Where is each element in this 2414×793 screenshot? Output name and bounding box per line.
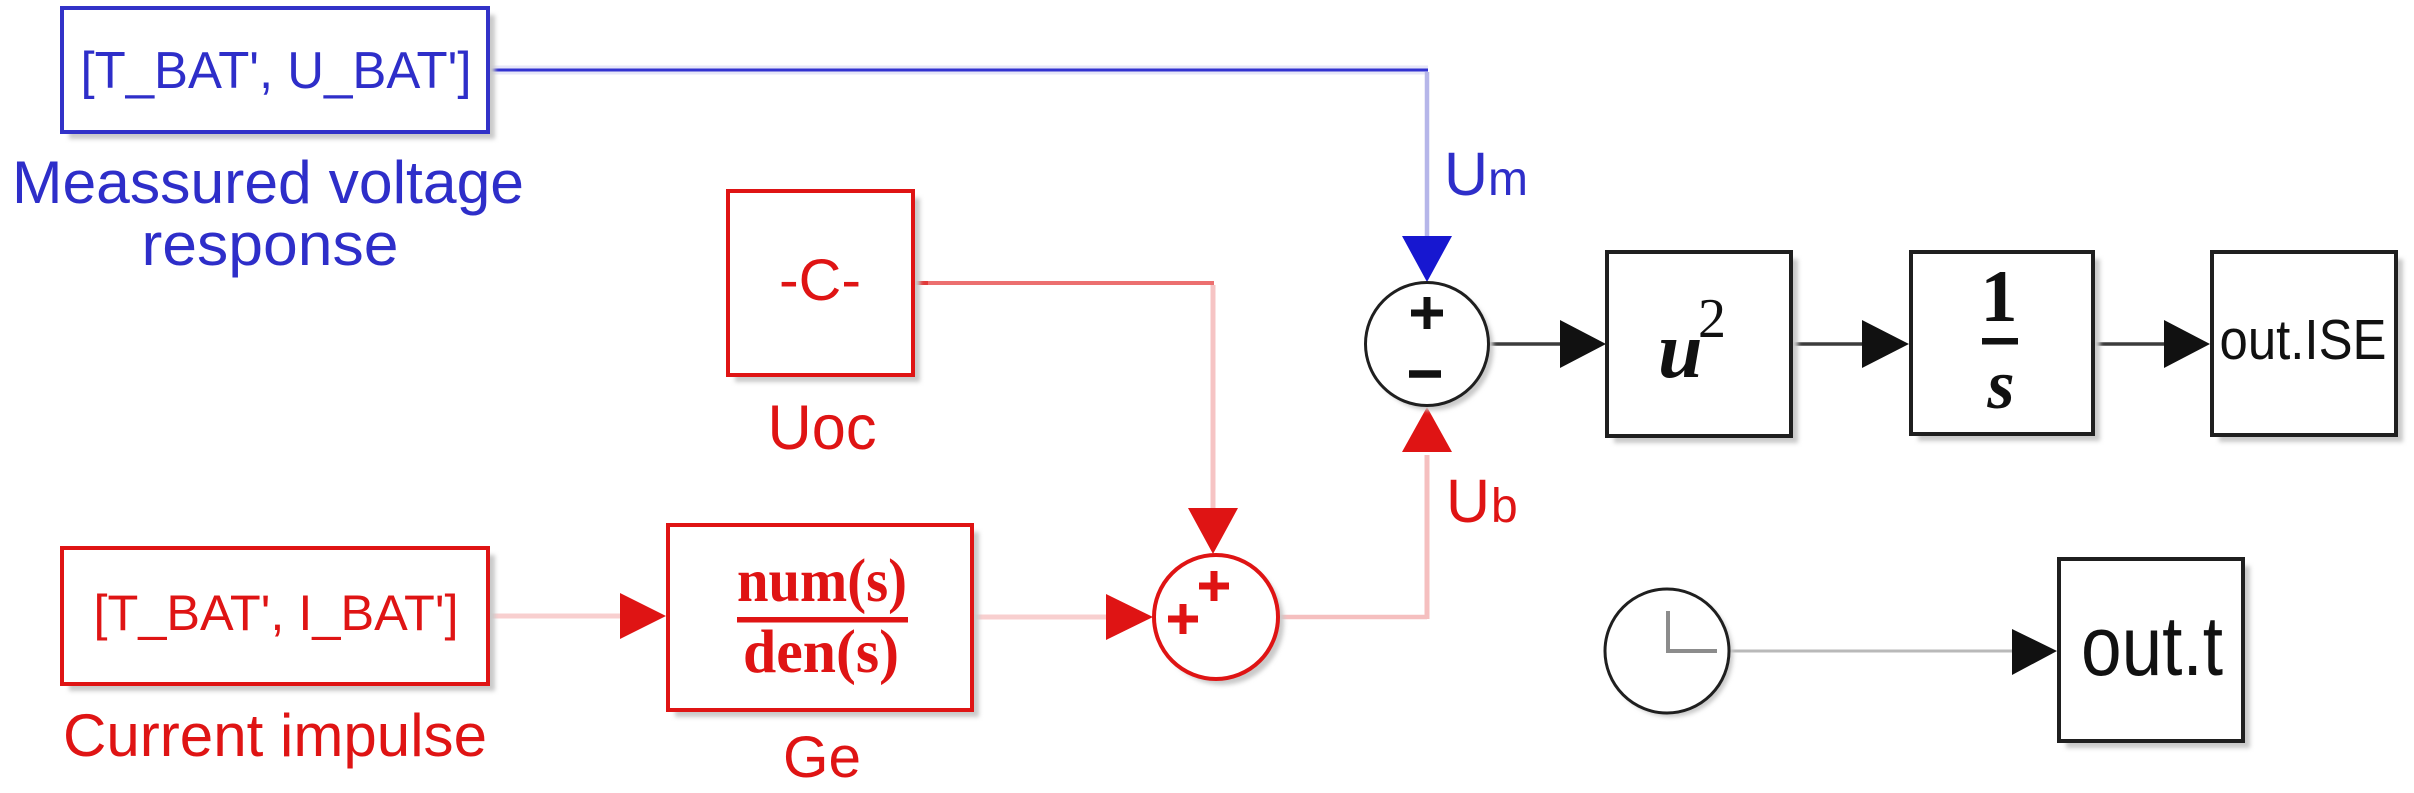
svg-text:response: response [142,211,399,278]
svg-text:U: U [1444,140,1488,208]
arrowhead: into out.t [2012,629,2057,675]
svg-text:1: 1 [1981,256,2018,338]
svg-text:u: u [1658,307,1703,395]
math block u^2 [1607,252,1798,443]
outport block out.ISE [2212,252,2403,442]
arrowhead: red down into red sum U2 [1188,508,1238,554]
svg-text:b: b [1491,480,1518,533]
arrowhead: into out.ISE [2164,320,2210,368]
wire: integrator to out.ISE [2093,342,2166,346]
constant block -C- (Uoc) [728,191,920,382]
arrowhead: red into red sum left port [1106,594,1153,640]
arrowhead: red up into black sum U1 [1402,407,1452,452]
svg-text:Ge: Ge [783,725,861,790]
clock block [1605,589,1733,717]
wire: pale red from red sum up to black sum [1278,615,1427,620]
arrowhead: red into Ge [620,593,666,639]
red sum junction U2 [1154,555,1284,685]
svg-text:U: U [1446,467,1490,535]
arrowhead: blue into sum U1 [1402,236,1452,282]
node label Um [1444,140,1528,208]
svg-text:s: s [1986,347,2014,424]
From block: measured voltage [T_BAT', U_BAT'] [62,8,495,139]
svg-text:den(s): den(s) [743,619,899,686]
svg-text:out.ISE: out.ISE [2220,308,2387,372]
wire: blue horizontal from measured-voltage From block [488,66,1428,75]
wire: clock to out.t [1729,650,2014,653]
svg-text:Meassured voltage: Meassured voltage [12,149,524,216]
node label Ub [1446,467,1518,535]
svg-text:Uoc: Uoc [768,393,877,463]
svg-text:-C-: -C- [779,248,861,313]
svg-text:Current impulse: Current impulse [63,702,487,769]
wire: pale red from current-impulse From block to Ge [488,614,620,619]
wire: pale red from Ge to red sum [972,615,1106,620]
svg-text:out.t: out.t [2081,599,2223,693]
wire: blue vertical down to sum [1425,72,1430,240]
wire: black sum to u2 square [1489,342,1562,346]
wire: pale red from -C- constant to red sum [913,281,930,285]
svg-text:[T_BAT', I_BAT']: [T_BAT', I_BAT'] [94,585,459,641]
svg-text:2: 2 [1698,288,1726,350]
black sum junction U1 [1366,283,1494,411]
arrowhead: into 1/s [1862,320,1909,368]
transfer function block Ge: num(s)/den(s) [668,525,979,717]
wire: u2 to integrator [1791,342,1864,346]
arrowhead: into u2 [1560,320,1606,368]
svg-text:m: m [1488,153,1528,206]
From block: current impulse [T_BAT', I_BAT'] [62,548,495,691]
svg-text:num(s): num(s) [737,548,907,615]
outport block out.t [2059,559,2250,748]
integrator block 1/s [1911,252,2100,441]
label: Meassured voltage response [12,149,524,278]
svg-text:[T_BAT', U_BAT']: [T_BAT', U_BAT'] [81,42,472,100]
